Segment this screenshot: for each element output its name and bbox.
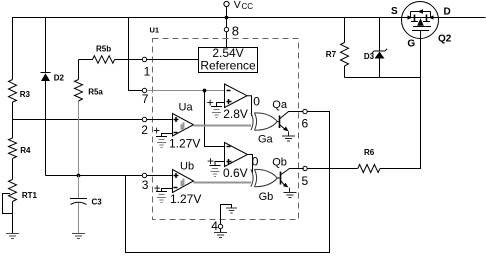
battery 1.27V (Ua) with ground <box>156 137 167 148</box>
wire comparator output to gate Gb <box>248 155 253 173</box>
svg-text:C3: C3 <box>92 198 103 207</box>
wire pin5 to R6 to gate node <box>307 31 420 169</box>
pin 8 <box>224 18 228 48</box>
svg-text:4: 4 <box>211 219 218 233</box>
op-amp comparator 2.8V <box>225 84 248 108</box>
svg-text:R4: R4 <box>20 146 31 155</box>
svg-text:+: + <box>207 96 214 110</box>
svg-text:R7: R7 <box>326 50 337 59</box>
svg-text:+: + <box>153 124 160 138</box>
svg-text:1.27V: 1.27V <box>170 192 201 206</box>
wire bottom loop pin6 net <box>126 112 330 253</box>
resistor R4 <box>9 138 17 159</box>
wire 0.6V ref to + input <box>215 162 225 166</box>
svg-text:CC: CC <box>242 2 254 11</box>
svg-text:7: 7 <box>142 92 149 106</box>
wire 2.8V ref to + input <box>217 103 225 107</box>
transistor Qb <box>277 169 304 186</box>
hysteresis glyph Ua <box>181 122 185 130</box>
wire pin2 net <box>13 119 143 121</box>
wire comparator output to gate Ga <box>247 96 252 116</box>
svg-text:Q2: Q2 <box>438 34 452 45</box>
svg-text:R5b: R5b <box>96 45 111 54</box>
svg-text:V: V <box>234 0 241 11</box>
svg-text:R6: R6 <box>364 148 375 157</box>
pin 6 <box>303 109 307 113</box>
svg-text:D3: D3 <box>364 52 375 61</box>
transistor Qa <box>277 112 303 130</box>
pin 3 <box>142 173 172 177</box>
svg-text:Qa: Qa <box>272 99 288 111</box>
svg-text:0: 0 <box>252 155 259 169</box>
capacitor C3 <box>70 176 87 234</box>
gate Gb <box>251 169 277 186</box>
op-amp comparator 0.6V <box>225 143 248 167</box>
svg-text:Reference: Reference <box>200 59 256 73</box>
diode D2 <box>41 18 51 176</box>
svg-text:5: 5 <box>302 174 309 188</box>
battery 2.8V with ground <box>211 107 222 118</box>
svg-text:3: 3 <box>142 178 149 192</box>
wire pin3 net <box>46 175 143 177</box>
resistor R5b <box>79 56 143 64</box>
op-amp Ub <box>173 170 194 193</box>
svg-text:Ua: Ua <box>179 102 194 114</box>
svg-text:+: + <box>154 181 161 195</box>
IC U1 dashed box <box>153 39 299 220</box>
battery 1.27V (Ub) with ground <box>156 192 167 203</box>
node VCC junction dot <box>225 16 229 20</box>
wire R7 D3 bottom to gate <box>345 77 421 79</box>
resistor R5a <box>75 60 83 174</box>
svg-text:8: 8 <box>232 24 239 39</box>
resistor R6 <box>358 165 380 173</box>
svg-text:G: G <box>407 39 415 50</box>
pin 5 <box>303 166 307 170</box>
wire Ub minus input to 1.27V ref <box>162 189 173 192</box>
MOSFET Q2 <box>402 2 439 39</box>
pin 4 <box>218 205 231 233</box>
svg-text:Gb: Gb <box>259 191 274 203</box>
terminal VCC <box>224 1 229 17</box>
svg-text:1.27V: 1.27V <box>169 137 200 151</box>
pin 7 <box>142 88 146 92</box>
ground external at pin 4 <box>214 233 227 238</box>
ground under Qa emitter <box>282 131 295 141</box>
svg-text:6: 6 <box>302 117 309 131</box>
wire left rail <box>12 18 14 234</box>
reference box 2.54V <box>199 46 258 73</box>
wire pin7 to comparator (gray) <box>147 90 225 92</box>
svg-text:Ub: Ub <box>180 161 194 173</box>
node C3 junction dot <box>77 174 81 178</box>
wire Ub output to gate Gb (gray) <box>194 182 252 184</box>
pin 2 <box>142 117 172 121</box>
ground under C3 <box>72 234 85 239</box>
op-amp Ua <box>173 114 194 137</box>
svg-text:Ga: Ga <box>258 134 274 146</box>
svg-text:D: D <box>444 7 451 18</box>
svg-text:2: 2 <box>141 123 148 137</box>
wire Ua output to gate Ga (gray) <box>194 125 252 127</box>
svg-text:R3: R3 <box>20 90 31 99</box>
node pin7 junction dot <box>203 89 207 93</box>
gate Ga <box>251 113 277 130</box>
svg-text:R5a: R5a <box>88 88 103 97</box>
svg-text:0: 0 <box>253 94 260 108</box>
svg-text:2.8V: 2.8V <box>223 107 248 121</box>
svg-text:S: S <box>391 6 398 17</box>
thermistor RT1 <box>3 180 17 214</box>
wire top rail to pin 7 <box>129 18 143 91</box>
ground internal at pin 4 <box>226 208 237 213</box>
svg-text:0.6V: 0.6V <box>223 166 248 180</box>
wire junction down to 0.6V comparator <box>205 91 225 147</box>
ground under RT1 <box>6 234 19 239</box>
ground under Qb emitter <box>284 188 297 198</box>
resistor R7 <box>341 18 349 78</box>
pin 1 <box>142 57 198 61</box>
resistor R3 <box>9 80 17 103</box>
battery 0.6V with ground <box>210 166 221 177</box>
svg-text:1: 1 <box>144 65 151 79</box>
svg-text:+: + <box>207 154 214 168</box>
svg-text:D2: D2 <box>54 74 65 83</box>
svg-text:Qb: Qb <box>272 157 287 169</box>
wire top rail VCC <box>12 17 486 19</box>
svg-text:U1: U1 <box>150 26 160 35</box>
zener diode D3 <box>372 18 387 78</box>
wire Ua minus input to 1.27V ref <box>162 134 173 137</box>
hysteresis glyph Ub <box>181 179 185 187</box>
svg-text:RT1: RT1 <box>22 191 38 200</box>
